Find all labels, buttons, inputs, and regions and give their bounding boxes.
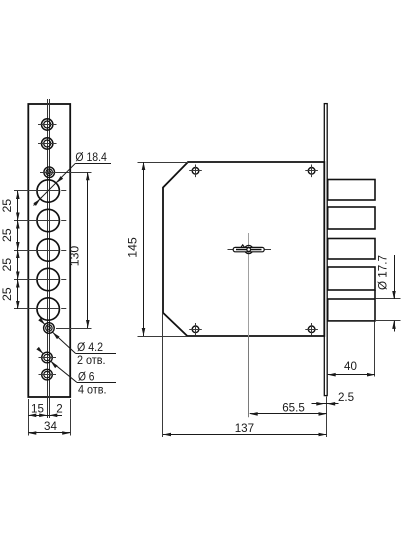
hole O6 lower A [39, 352, 57, 363]
C3 centerline [14, 250, 59, 252]
hole O4.2 lower [44, 323, 55, 334]
dimension 130 line [87, 172, 89, 328]
big hole C3 [37, 239, 59, 261]
dimension 2.5 line [312, 403, 339, 405]
C1 centerline [14, 190, 59, 192]
svg-text:65.5: 65.5 [282, 401, 305, 414]
body screw hole top-left [189, 165, 202, 178]
dimension 40 right extension [374, 322, 376, 377]
svg-text:137: 137 [235, 422, 254, 435]
key cam center [247, 248, 251, 252]
dimension 145 line [143, 162, 145, 336]
svg-text:Ø 18.4: Ø 18.4 [75, 150, 107, 164]
svg-text:15: 15 [31, 402, 44, 415]
big hole C1 O18.4 [37, 180, 59, 202]
big hole C5 [37, 298, 59, 320]
svg-text:130: 130 [68, 246, 82, 267]
C2 centerline [14, 220, 59, 222]
dimension 40 line [328, 374, 375, 376]
O17.7 extension top [376, 298, 401, 300]
extension: body top edge left [138, 162, 189, 164]
svg-text:Ø 6: Ø 6 [78, 369, 95, 383]
big hole C4 [37, 268, 59, 290]
hole O6 lower B [39, 369, 57, 380]
svg-text:145: 145 [126, 237, 140, 258]
svg-text:Ø 17.7: Ø 17.7 [376, 255, 390, 290]
dimension 137 line [163, 434, 327, 436]
body screw hole top-right [305, 165, 318, 178]
extension: body bottom edge left [138, 336, 188, 338]
dimension 15/2 line [28, 415, 62, 417]
key cam boss circle [245, 245, 253, 253]
O17.7 dim line lower [394, 321, 396, 332]
C5 centerline [14, 308, 59, 310]
faceplate vertical centerline (hole axis) [47, 99, 49, 418]
svg-text:25: 25 [0, 258, 14, 272]
extension: body left edge down (137 dim) [162, 313, 164, 437]
bolt B3 [328, 239, 375, 260]
O4.2 leader [53, 332, 76, 353]
C4 centerline [14, 279, 59, 281]
O18.4 leader diagonal through C1 [34, 163, 76, 205]
bolt B4/B5 connecting web right edge [374, 290, 376, 299]
svg-text:2 отв.: 2 отв. [77, 353, 106, 367]
cam vertical centerline (gray) [248, 233, 250, 336]
extension line from upper O4.2 hole (for 130 dim) [59, 172, 92, 174]
svg-text:34: 34 [44, 420, 57, 433]
chain arrows [16, 191, 20, 199]
dimension chain 25x4 line [17, 191, 19, 309]
faceplate vertical centerline (plate mid) [49, 99, 51, 418]
screw hole top 2 (countersunk) [38, 138, 57, 149]
screw hole top 1 (countersunk) [38, 119, 57, 130]
bolt B1 [328, 180, 375, 201]
svg-text:25: 25 [0, 287, 14, 301]
O6 label underline [77, 382, 116, 384]
lock body outline [163, 162, 324, 336]
O4.2 label underline [75, 353, 116, 355]
dimension 65.5 line [250, 413, 327, 415]
hole O4.2 upper [40, 167, 59, 178]
extension: plate right edge down [70, 399, 72, 436]
key cam bar [233, 247, 264, 251]
O6 leader [51, 361, 77, 382]
left faceplate outline [28, 104, 70, 397]
O17.7 dim line upper [394, 255, 396, 299]
extension: cam centerline down to 65.5 dim [248, 336, 250, 417]
striker plate strip (side view) [324, 104, 327, 396]
extension: strip left edge down (137/65.5/2.5 dims) [326, 397, 328, 438]
O4.2 opposite arrow [41, 321, 45, 325]
O6 opposite arrow [39, 349, 44, 354]
big hole C2 [37, 209, 59, 231]
svg-text:40: 40 [344, 360, 357, 373]
extension: plate left edge down [28, 399, 30, 436]
body screw hole bottom-left [189, 323, 202, 336]
dimension 34 line [28, 432, 70, 434]
key cam slot [236, 249, 262, 251]
svg-text:2.5: 2.5 [338, 391, 354, 404]
key cam notch [241, 245, 244, 247]
cam horizontal centerline [228, 249, 272, 251]
svg-text:2: 2 [56, 403, 62, 416]
body screw hole bottom-right [305, 323, 318, 336]
O18.4 leader underline [75, 163, 111, 165]
bolt B2 [328, 207, 375, 229]
svg-text:4 отв.: 4 отв. [78, 383, 107, 397]
O17.7 extension bottom [376, 320, 401, 322]
svg-text:25: 25 [0, 228, 14, 242]
extension line from lower O4.2 hole (for 130 dim) [56, 328, 92, 330]
bolt B5 [328, 299, 375, 321]
bolt B4 [328, 267, 375, 290]
svg-text:25: 25 [0, 199, 14, 213]
